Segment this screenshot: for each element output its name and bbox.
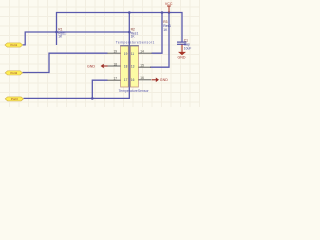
- pin numbers outside left: [113, 50, 117, 81]
- svg-text:16: 16: [140, 76, 144, 80]
- port Port3: [5, 97, 23, 101]
- svg-text:18: 18: [113, 62, 117, 66]
- power ground GND left of row2: [87, 64, 108, 69]
- capacitor C1 labels: [184, 38, 192, 50]
- svg-text:19: 19: [124, 52, 128, 56]
- svg-text:17: 17: [124, 78, 128, 82]
- wire row3-left to port3 junction: [92, 80, 107, 98]
- svg-text:Port2: Port2: [11, 71, 18, 75]
- sheet background: [0, 0, 200, 107]
- wire top bus with corners: [23, 13, 183, 99]
- port Port2: [5, 71, 22, 75]
- IC top border indigo line: [120, 45, 139, 47]
- junction dots: [55, 11, 170, 100]
- svg-text:11: 11: [131, 52, 135, 56]
- IC pins right black stubs: [138, 53, 151, 80]
- resistor R3 labels: [163, 20, 171, 32]
- pin names inside right half: [131, 52, 135, 82]
- pin numbers outside right: [140, 50, 144, 81]
- resistor R2 labels: [131, 28, 139, 39]
- wire row2-right to VCC net: [150, 13, 169, 68]
- svg-text:14: 14: [140, 50, 144, 54]
- svg-text:VCC: VCC: [165, 2, 173, 6]
- IC right half body: [130, 46, 138, 87]
- svg-text:10uF: 10uF: [184, 46, 192, 50]
- IC pins left black stubs: [107, 53, 120, 80]
- IC left half body: [121, 46, 129, 87]
- svg-text:16: 16: [131, 78, 135, 82]
- wire port1 riser and horizontal run: [23, 32, 130, 45]
- svg-text:13: 13: [131, 65, 135, 69]
- resistor R1 labels: [58, 28, 66, 39]
- svg-text:17: 17: [113, 77, 117, 81]
- svg-text:TemperatureSensor1: TemperatureSensor1: [116, 40, 155, 44]
- wire middle vertical down to port3 run: [24, 13, 130, 99]
- wire row1-right to R3: [152, 13, 163, 54]
- capacitor C1 plates: [177, 42, 186, 52]
- power ground GND right of row3: [152, 78, 169, 83]
- svg-text:18: 18: [124, 65, 128, 69]
- svg-text:GND: GND: [178, 56, 186, 60]
- port Port1: [5, 43, 23, 47]
- power ground GND below C1: [178, 52, 187, 60]
- wire segment between IC halves: [128, 46, 130, 87]
- wire port2 to row1-left pin: [23, 53, 108, 72]
- svg-text:Port1: Port1: [10, 43, 17, 47]
- pin names inside left half: [124, 52, 128, 82]
- svg-text:GND: GND: [87, 64, 95, 68]
- svg-text:15: 15: [140, 64, 144, 68]
- power port VCC: [165, 2, 173, 13]
- svg-text:19: 19: [113, 50, 117, 54]
- svg-text:GND: GND: [160, 78, 168, 82]
- svg-text:Port3: Port3: [11, 97, 18, 101]
- svg-text:TemperatureSensor: TemperatureSensor: [119, 89, 150, 93]
